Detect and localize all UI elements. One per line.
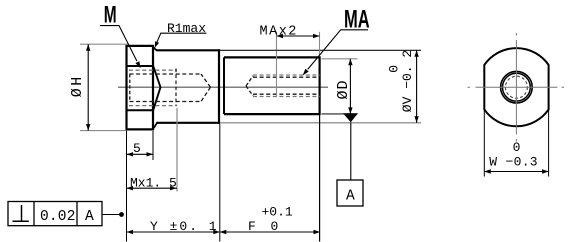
left hole minor dashed top [130, 73, 202, 75]
body2 bottom edge [224, 113, 320, 115]
feature control frame [8, 202, 124, 226]
perpendicularity symbol [21, 205, 23, 221]
shoulder extension line [219, 124, 221, 242]
body1 top edge [156, 49, 220, 51]
MAx2 dimension [260, 25, 320, 57]
W dimension [484, 109, 548, 176]
Y dimension [127, 219, 220, 234]
left face extension line [126, 131, 128, 242]
end view chamfer circle [501, 71, 533, 103]
leader to extension line [102, 214, 120, 216]
M thread label [100, 1, 141, 68]
left hole minor dashed bottom [130, 101, 202, 103]
right hole chamfer dashed cone [246, 76, 253, 96]
R1max label [155, 21, 207, 48]
left hole drill point dashed [201, 74, 211, 102]
svg-text:A: A [346, 188, 355, 204]
svg-text:Y ±0. 1: Y ±0. 1 [150, 219, 219, 234]
end view horizontal centerline [468, 86, 565, 88]
left thread major dashed top [129, 69, 177, 71]
svg-text:ØH: ØH [69, 74, 86, 97]
svg-text:A: A [85, 209, 94, 225]
right hole minor dashed bottom [253, 93, 320, 95]
end view outer profile [484, 48, 548, 126]
end view hole circle [503, 73, 531, 101]
right face extension line [319, 115, 321, 241]
flange head outline [127, 45, 154, 131]
5 dimension [127, 131, 154, 160]
svg-text:0: 0 [513, 140, 521, 155]
svg-text:MA: MA [344, 6, 370, 33]
svg-text:ØD: ØD [335, 79, 352, 99]
datum stem [350, 122, 352, 180]
left hole entry dashed vertical [129, 74, 131, 102]
right hole minor dashed top [253, 76, 320, 78]
centerline left view [118, 86, 328, 88]
svg-text:0: 0 [387, 65, 402, 73]
left hole cone point solid [153, 66, 160, 110]
svg-text:0.02: 0.02 [40, 209, 76, 225]
thread depth extension line [276, 32, 278, 97]
right hole major dashed bottom [253, 96, 320, 98]
MA thread label [303, 6, 370, 75]
fillet bottom [154, 123, 157, 128]
svg-text:+0.1: +0.1 [262, 204, 293, 219]
svg-text:0: 0 [271, 219, 279, 234]
svg-text:Mx1. 5: Mx1. 5 [130, 175, 177, 190]
F dimension [220, 204, 320, 234]
ØD dimension [322, 59, 358, 114]
left hole counterbore top solid [128, 65, 154, 67]
datum feature triangle [343, 113, 358, 122]
svg-text:ØV −0. 2: ØV −0. 2 [400, 50, 415, 112]
body2 top edge [224, 56, 320, 58]
end view thread dashed circle [505, 76, 527, 98]
svg-text:W −0.3: W −0.3 [489, 154, 538, 169]
right face [319, 56, 321, 115]
left hole counterbore bottom solid [128, 109, 154, 111]
Mx1.5 dimension [127, 69, 178, 192]
datum A box [337, 180, 363, 206]
svg-text:5: 5 [133, 141, 141, 156]
svg-text:F: F [248, 219, 256, 234]
body1 bottom extension to ØV [220, 122, 421, 124]
end view vertical centerline [515, 33, 517, 142]
ØH dimension [69, 44, 129, 130]
fillet top R1 [154, 47, 157, 50]
body1 top extension to ØV [220, 49, 421, 51]
ØV dimension [387, 50, 419, 123]
right hole major dashed top [253, 74, 320, 76]
svg-text:M: M [104, 1, 117, 29]
svg-text:MAx2: MAx2 [260, 25, 298, 40]
body1 bottom edge [156, 122, 220, 124]
body2 left edge [223, 57, 225, 114]
left thread major dashed bottom [129, 105, 177, 107]
shoulder face [218, 49, 220, 124]
